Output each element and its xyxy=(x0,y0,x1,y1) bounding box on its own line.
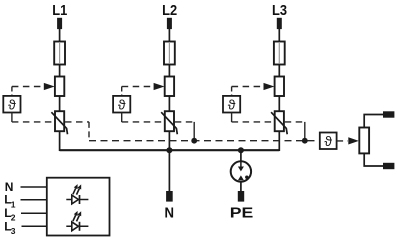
svg-text:L3: L3 xyxy=(272,3,287,19)
svg-text:ϑ: ϑ xyxy=(324,133,332,149)
svg-text:N: N xyxy=(165,205,175,221)
svg-text:PE: PE xyxy=(230,206,254,222)
svg-text:L2: L2 xyxy=(162,3,177,19)
svg-text:3: 3 xyxy=(11,226,16,236)
svg-text:L1: L1 xyxy=(52,3,67,19)
